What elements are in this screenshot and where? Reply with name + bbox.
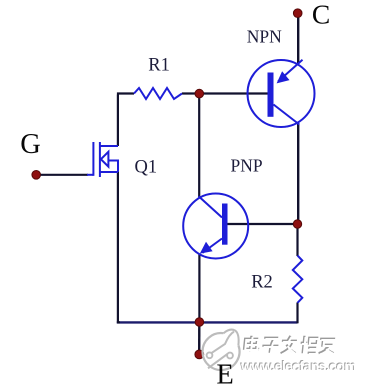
transistor PNP (middle) xyxy=(183,194,248,259)
wire: gate lead from G terminal to MOSFET xyxy=(36,174,88,176)
transistor NPN (upper right) xyxy=(248,60,315,127)
watermark text 电子发烧友 (approximated strokes, embossed) xyxy=(243,336,336,355)
resistor R2 xyxy=(293,256,303,303)
resistor R1 xyxy=(134,88,182,99)
node: E terminal dot xyxy=(195,350,204,359)
svg-text:PNP: PNP xyxy=(231,155,263,175)
node: C terminal dot xyxy=(293,9,302,18)
node B: NPN emitter / PNP base / R2 junction xyxy=(293,220,301,228)
wire: bottom node to E terminal xyxy=(198,322,201,354)
watermark logo xyxy=(203,330,240,370)
wire: NPN emitter down to node B xyxy=(297,124,299,224)
wire: collector terminal C down to NPN xyxy=(297,12,299,64)
wire: left vertical from MOSFET source to bottom rail xyxy=(118,172,120,323)
wire: PNP base line to node B xyxy=(228,223,298,225)
node: bottom rail junction xyxy=(195,318,204,327)
svg-text:R1: R1 xyxy=(148,56,170,76)
wire: R2 bottom lead xyxy=(296,303,298,324)
wire: NPN base line from node A xyxy=(199,92,268,94)
svg-text:C: C xyxy=(312,0,330,29)
MOSFET Q1 xyxy=(87,142,118,177)
svg-text:G: G xyxy=(20,129,41,160)
svg-text:NPN: NPN xyxy=(247,26,282,46)
node: G terminal dot xyxy=(32,171,41,180)
wire: R2 top lead xyxy=(296,224,298,256)
svg-text:Q1: Q1 xyxy=(134,157,157,177)
svg-text:R2: R2 xyxy=(251,273,273,293)
wire: bottom rail xyxy=(117,321,298,323)
node A: R1 / NPN base junction xyxy=(195,89,204,98)
wire: PNP emitter down to bottom node xyxy=(198,255,200,323)
svg-text:www.elecfans.com: www.elecfans.com xyxy=(240,358,356,374)
wire: drain vertical up from MOSFET to R1 row xyxy=(117,94,134,147)
svg-text:E: E xyxy=(216,359,233,388)
wire: R1 right lead to node A xyxy=(182,92,199,94)
wire: node A down to PNP collector xyxy=(198,94,200,198)
